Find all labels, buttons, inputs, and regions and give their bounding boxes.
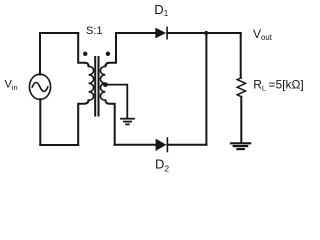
phase dot primary (83, 52, 87, 56)
diode D1 (155, 27, 167, 40)
wire: secondary bottom lead (105, 100, 114, 145)
wire: D2 cathode to riser (167, 144, 206, 146)
phase dot secondary (106, 52, 110, 56)
svg-text:RL =5[kΩ]: RL =5[kΩ] (253, 78, 304, 93)
wire: top wire to D1 (116, 32, 155, 34)
wire: D1 cathode to Vout corner (167, 32, 241, 34)
transformer T1 secondary winding (100, 66, 105, 100)
wire: center tap to ground (106, 85, 128, 118)
wire: Vin bottom lead (39, 99, 41, 145)
resistor RL (237, 78, 245, 97)
ground (center tap) (121, 119, 134, 125)
wire: primary top lead (78, 33, 88, 66)
transformer T1 primary winding (89, 66, 94, 100)
wire: top-left horizontal (40, 32, 78, 34)
node: center tap junction (103, 82, 108, 87)
ground (output) (231, 143, 250, 149)
AC source Vin (29, 74, 50, 99)
transformer T1 core (95, 57, 98, 116)
node: output junction (204, 31, 208, 35)
wire: secondary top lead (105, 33, 116, 66)
wire: Vout lead down (240, 33, 242, 78)
svg-text:S:1: S:1 (86, 25, 103, 37)
wire: primary bottom lead (78, 100, 88, 145)
wire: D2 riser (205, 33, 207, 145)
wire: bottom-left horizontal (40, 144, 78, 146)
wire: Vin top lead (39, 33, 41, 75)
wire: bottom wire to D2 (115, 144, 156, 146)
diode D2 (156, 137, 168, 152)
wire: resistor to ground (240, 97, 242, 143)
